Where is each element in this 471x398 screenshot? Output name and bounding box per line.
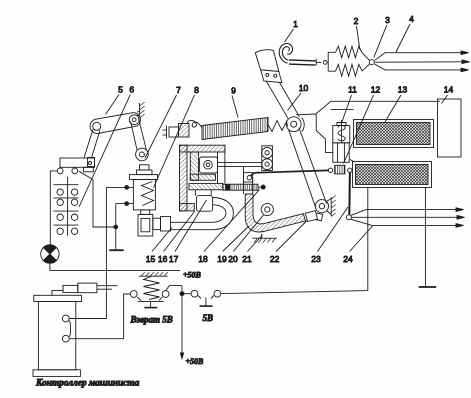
handle lever 1 (hook handle of controller) xyxy=(255,45,321,118)
label 5 xyxy=(106,85,124,115)
wire (from coil bottom down to +50V bus) xyxy=(221,188,368,294)
svg-text:5В: 5В xyxy=(203,313,214,323)
wire (pilot valve to shunt, dark) xyxy=(251,170,329,176)
svg-text:4: 4 xyxy=(409,14,414,24)
node 3 (pivot joint of rod linkage) xyxy=(369,60,374,65)
valve body foot (hatched) xyxy=(180,204,195,211)
label 21 xyxy=(242,235,262,264)
ground (right) xyxy=(419,286,437,288)
roller (lower end of lever 10) xyxy=(315,199,331,215)
svg-text:7: 7 xyxy=(176,85,181,95)
label 9 xyxy=(231,86,238,118)
label 1 xyxy=(285,19,299,42)
valve inner wall (hatched) xyxy=(190,152,198,180)
lever 10 pivot xyxy=(286,117,304,132)
svg-text:15: 15 xyxy=(146,254,156,264)
controller cylinder (Kontroller mashinista) xyxy=(33,295,82,376)
roller (inside J-guide) xyxy=(261,203,273,215)
svg-text:9: 9 xyxy=(231,86,236,96)
cam follower plate xyxy=(57,158,94,180)
svg-text:+50В: +50В xyxy=(186,357,205,366)
piston rod xyxy=(218,163,262,167)
spring (rack to lever pivot zigzag) xyxy=(268,121,288,132)
controller top plug xyxy=(52,283,118,295)
wire (vertical bus A to controller) xyxy=(69,187,106,318)
wire (terminal 1 to vertical bus A) xyxy=(106,186,133,188)
svg-text:Контроллер машиниста: Контроллер машиниста xyxy=(35,379,140,389)
stem guides below chamber xyxy=(244,166,253,194)
svg-text:18: 18 xyxy=(198,254,208,264)
svg-text:10: 10 xyxy=(299,83,309,93)
piston block xyxy=(200,157,218,173)
wire (controller lower contact to return relay) xyxy=(69,294,130,339)
wire (terminal 2 stub) xyxy=(116,203,134,205)
svg-text:3: 3 xyxy=(385,15,390,25)
lever 10 arm xyxy=(289,128,327,208)
node (distributor of rods 23/24) xyxy=(346,215,351,220)
push button 5V xyxy=(184,290,221,306)
U-pipe block xyxy=(197,196,213,212)
svg-text:17: 17 xyxy=(169,254,179,264)
label 16 xyxy=(158,212,195,265)
label 17 xyxy=(169,200,207,264)
armature guide bracket 12 xyxy=(333,143,354,163)
wire (thick vertical from shunt to distributor node) xyxy=(348,173,351,215)
chamber right walls xyxy=(218,145,225,183)
wire (junction vertical to +50V arrow) xyxy=(180,286,184,359)
linkage arm 7 (bell crank) xyxy=(131,118,149,161)
svg-text:12: 12 xyxy=(371,85,381,95)
pipe end plug 15 xyxy=(138,214,171,236)
flexible shunt (striped block) xyxy=(335,165,345,174)
spring 11 (armature return spring) xyxy=(333,120,350,143)
node (bus junction dot) xyxy=(180,292,184,296)
caption Vozvrat 5V xyxy=(130,315,173,325)
linkage arm (down to cam plate) xyxy=(84,130,100,158)
pallet fitting 22 xyxy=(305,211,323,222)
label 6 xyxy=(79,85,134,208)
svg-text:22: 22 xyxy=(270,254,280,264)
valve inner shelf (hatched) xyxy=(190,174,215,180)
wire (lamp to +50V bus) xyxy=(50,263,180,270)
spring 2 (bellows) xyxy=(323,46,369,76)
wire 4 (three output rods with arrows) xyxy=(375,51,470,72)
electro-valve 8 (with spring) xyxy=(129,165,157,215)
label 23 xyxy=(311,207,348,264)
svg-text:24: 24 xyxy=(343,254,353,264)
magnet housing outline xyxy=(296,101,440,152)
wire (three lower rods with arrows) xyxy=(351,208,465,227)
contact block (controller contacts) xyxy=(54,177,79,236)
label 3 xyxy=(374,15,390,58)
label +50V (left bus) xyxy=(183,271,202,280)
valve lower shelf (hatched) xyxy=(189,183,223,189)
linkage arm 5 (upper bar) xyxy=(90,113,140,134)
svg-text:1: 1 xyxy=(293,19,298,29)
svg-text:8: 8 xyxy=(194,85,199,95)
svg-text:19: 19 xyxy=(217,254,227,264)
node (valve terminal 2) xyxy=(125,202,129,206)
valve stem guides xyxy=(195,190,211,196)
svg-text:11: 11 xyxy=(348,85,357,95)
label 18 xyxy=(198,190,259,265)
svg-text:14: 14 xyxy=(444,85,454,95)
svg-text:13: 13 xyxy=(398,85,408,95)
node (wire terminal right of shunt) xyxy=(348,168,352,172)
label 10 xyxy=(288,83,309,111)
svg-text:Взврат 5В: Взврат 5В xyxy=(130,315,173,325)
labels 15-22 xyxy=(146,228,172,265)
label 4 xyxy=(396,14,414,52)
label 12 xyxy=(344,85,381,164)
rack end fittings (clip and cap) xyxy=(163,120,203,138)
wire (valve terminal 2 down to ground) xyxy=(115,204,117,250)
svg-text:20: 20 xyxy=(228,254,238,264)
wall anchor (right of roller) xyxy=(331,196,336,217)
label +50V (bottom) xyxy=(186,357,205,366)
label 14 xyxy=(442,85,454,104)
label 2 xyxy=(354,16,360,50)
node (valve terminal 1) xyxy=(125,186,129,190)
coil 13 upper xyxy=(354,120,434,148)
svg-text:2: 2 xyxy=(354,16,359,26)
valve body left wall (hatched) xyxy=(180,145,188,211)
node (pilot wire terminal) xyxy=(247,176,251,180)
wire (coil to ground) xyxy=(424,188,426,287)
label 19 xyxy=(217,226,249,264)
ground (under contact junction) xyxy=(109,249,123,251)
svg-text:6: 6 xyxy=(129,85,134,95)
label 24 xyxy=(343,226,372,264)
rack 9 (ribbed band) xyxy=(202,118,268,140)
valve body top bar (hatched) xyxy=(180,145,226,152)
screw rod 18 (hatched) xyxy=(223,184,261,190)
wire (cam plate to junction) xyxy=(93,180,114,228)
node (junction dot) xyxy=(114,225,118,229)
caption Kontroller mashinista xyxy=(35,379,140,389)
label 8 xyxy=(154,85,200,188)
node (black dot end of screw) xyxy=(261,185,265,189)
return relay (Vozvrat 5V) xyxy=(130,272,169,307)
svg-text:+50В: +50В xyxy=(183,271,202,280)
coil lower xyxy=(353,162,432,188)
svg-text:16: 16 xyxy=(158,254,168,264)
svg-text:23: 23 xyxy=(311,254,321,264)
U-pipe xyxy=(170,198,233,230)
J-guide (hatched curved band) xyxy=(245,194,305,232)
end cap 14 xyxy=(438,99,462,157)
wire (relay to +50V junction) xyxy=(166,286,182,291)
label 22 xyxy=(270,221,307,265)
wall anchor (linkage top pivot) xyxy=(137,102,145,118)
roller link (vertical) xyxy=(262,146,273,171)
caption 5V xyxy=(203,313,214,323)
ground anchor (below J-guide) xyxy=(252,234,276,243)
wire (plate to lamp) xyxy=(50,171,57,245)
label 20 xyxy=(228,215,263,264)
svg-text:5: 5 xyxy=(118,85,123,95)
svg-text:21: 21 xyxy=(242,254,252,264)
node (wire terminal left of shunt) xyxy=(328,168,332,172)
label 11 xyxy=(341,85,357,125)
lamp (indicator) xyxy=(41,245,59,263)
label 13 xyxy=(385,85,407,123)
label 7 xyxy=(145,85,181,158)
